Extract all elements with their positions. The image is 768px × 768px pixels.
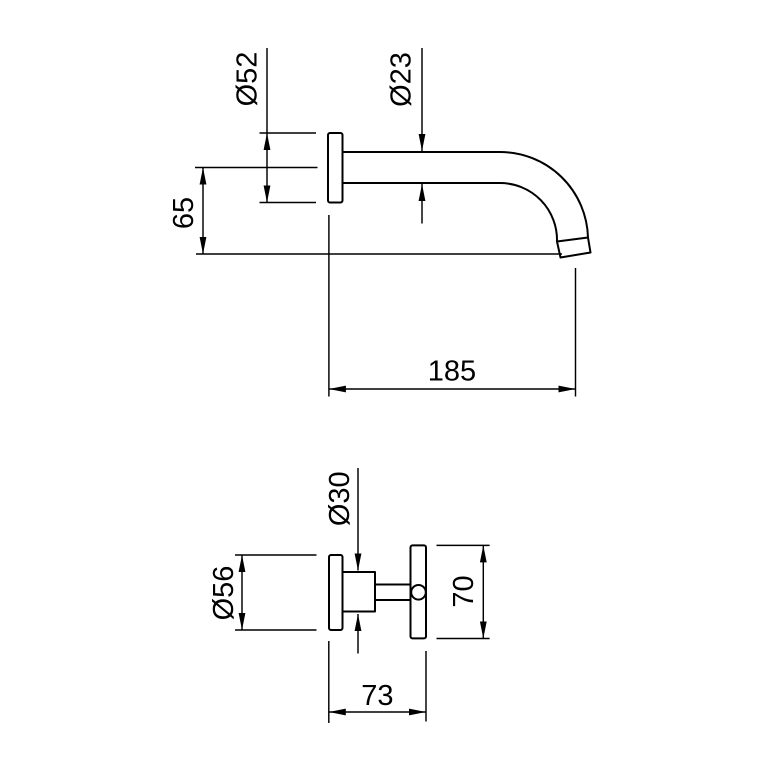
dim O56 arrowhead down (239, 613, 246, 630)
dim 185 right extension line (575, 268, 577, 397)
dim O56 dimension line (241, 555, 243, 630)
valve wall flange (329, 555, 343, 630)
dim O30 upper dimension line (357, 468, 359, 571)
valve body (343, 572, 376, 612)
dim O30 arrowhead down (355, 554, 362, 571)
dim 185 arrowhead right (559, 386, 576, 393)
dim O23 arrowhead down (419, 134, 426, 151)
dim O56 extension line bottom (235, 629, 317, 631)
centerline extension 65 top (195, 167, 318, 169)
dim 185 dimension line (329, 388, 576, 390)
svg-text:73: 73 (361, 680, 393, 712)
dim 70 extension line bottom (437, 638, 490, 640)
dim 70 arrowhead up (480, 545, 487, 562)
dim O52 dimension line (266, 48, 268, 203)
handle bar (411, 545, 427, 638)
dim 73 dimension line (329, 711, 426, 713)
dim 185 left extension line (328, 215, 330, 397)
svg-text:Ø23: Ø23 (386, 52, 418, 107)
dim 65 arrowhead up (200, 168, 207, 185)
outlet reference line 65 bottom (196, 253, 562, 255)
svg-text:185: 185 (428, 356, 476, 388)
dim 65 dimension line (202, 168, 204, 255)
dim 73 right extension line (425, 651, 427, 722)
dim 65 arrowhead down (200, 237, 207, 254)
spout tube with curved outlet (343, 152, 591, 258)
dim 185 arrowhead left (329, 386, 346, 393)
dim O23 lower dimension line (421, 184, 423, 224)
dim 70 dimension line (482, 545, 484, 638)
dim 73 left extension line (328, 641, 330, 723)
dim O52 arrowhead down (264, 186, 271, 203)
dim O56 extension line top (235, 554, 317, 556)
dim O56 arrowhead up (239, 555, 246, 572)
dim 73 arrowhead left (329, 709, 346, 716)
handle hub circle (411, 585, 426, 600)
svg-text:70: 70 (448, 575, 480, 607)
dim O52 extension line top (260, 132, 317, 134)
dim O52 arrowhead up (264, 133, 271, 150)
svg-text:Ø30: Ø30 (324, 471, 356, 526)
dim O30 lower dimension line (357, 614, 359, 654)
dim 70 arrowhead down (480, 622, 487, 639)
spout aerator line (557, 238, 588, 242)
svg-text:65: 65 (168, 197, 200, 229)
dim O52 extension line bottom (260, 202, 317, 204)
dim O23 upper dimension line (421, 48, 423, 151)
spout wall flange (328, 133, 343, 203)
valve stem (375, 585, 411, 601)
svg-text:Ø52: Ø52 (232, 52, 264, 107)
dim O23 arrowhead up (419, 184, 426, 201)
dim 73 arrowhead right (409, 709, 426, 716)
dim O30 arrowhead up (355, 614, 362, 631)
dim 70 extension line top (437, 544, 490, 546)
svg-text:Ø56: Ø56 (208, 566, 240, 621)
